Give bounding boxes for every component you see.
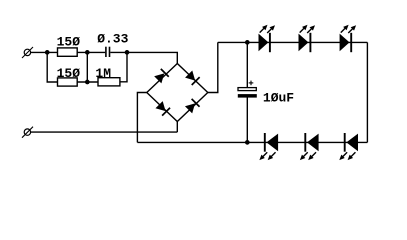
node B junction dot xyxy=(85,50,90,55)
bridge diamond edges xyxy=(147,64,208,122)
wire R2 right to 1M left (bottom row y=82) xyxy=(77,81,98,83)
svg-text:15Ø: 15Ø xyxy=(57,35,81,50)
bridge diode D3 (left vertex to bottom vertex) xyxy=(155,101,170,116)
wire top rail (+) xyxy=(218,41,368,43)
svg-text:1M: 1M xyxy=(95,66,111,81)
resistor R3 1M xyxy=(98,78,120,86)
terminal J1 (AC input, upper) xyxy=(22,47,33,58)
node - rail junction dot xyxy=(245,140,250,145)
terminal J2 (AC input, lower) xyxy=(22,127,33,138)
wire C1 right to bridge top vertex xyxy=(110,52,177,63)
bridge diode D2 (top vertex to right vertex) xyxy=(185,70,200,85)
resistor R2 150 (bottom) xyxy=(58,78,78,86)
wire bridge right vertex to top rail xyxy=(208,42,218,92)
wire bridge left vertex to bottom rail xyxy=(137,93,146,143)
wire node C down to R3 right xyxy=(120,52,127,81)
wire node B vertical xyxy=(86,52,88,82)
node C junction dot xyxy=(125,50,130,55)
svg-text:1ØuF: 1ØuF xyxy=(263,91,294,106)
node A junction dot xyxy=(45,50,50,55)
node + rail junction dot xyxy=(245,40,250,45)
bridge diode D4 (bottom vertex to right vertex) xyxy=(185,99,200,114)
LED D8 (bottom rail, first) xyxy=(258,133,278,162)
wire node A down and to R2 xyxy=(47,52,57,82)
resistor R1 150 (top) xyxy=(58,48,78,56)
wire bridge bottom vertex stub xyxy=(176,122,178,133)
capacitor C2 bottom plate (filled) xyxy=(238,94,257,98)
LED D10 (bottom rail, third) xyxy=(338,133,358,162)
LED D6 (top rail, second) xyxy=(298,23,317,52)
wire bottom rail (-) xyxy=(137,141,367,143)
capacitor C2 plus sign xyxy=(249,81,254,86)
capacitor C2 top plate (hollow, +) xyxy=(238,88,256,91)
svg-text:Ø.33: Ø.33 xyxy=(97,32,128,47)
wire J1 to C1 left (top row y=52.4) xyxy=(31,51,106,53)
svg-text:15Ø: 15Ø xyxy=(57,66,81,81)
node B2 junction dot xyxy=(85,80,90,85)
LED D5 (top rail, first) xyxy=(258,23,277,52)
bridge diode D1 (left vertex to top vertex) xyxy=(154,69,169,84)
capacitor C2 10uF leads xyxy=(246,42,248,142)
LED D7 (top rail, third) xyxy=(339,23,358,52)
LED D9 (bottom rail, second) xyxy=(298,133,318,162)
wire J2 to bridge bottom vertex (y=132.1) xyxy=(31,131,178,133)
capacitor C1 0.33 plates xyxy=(106,47,110,57)
wire right side vertical xyxy=(366,42,368,142)
